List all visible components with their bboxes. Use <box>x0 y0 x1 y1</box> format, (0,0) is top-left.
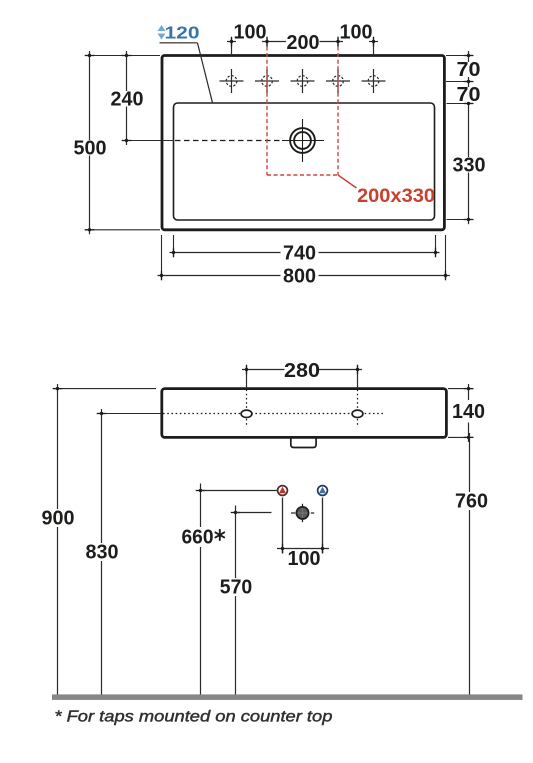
svg-text:760: 760 <box>455 490 488 513</box>
inner basin rect <box>174 103 435 220</box>
svg-text:70: 70 <box>457 83 481 106</box>
dashed centerline of basin <box>175 140 282 142</box>
hot water icon (red) <box>278 486 288 496</box>
svg-text:330: 330 <box>453 154 486 177</box>
tap hole ellipse right <box>352 410 363 417</box>
svg-text:70: 70 <box>457 58 481 81</box>
svg-text:800: 800 <box>283 265 316 288</box>
vertical dotted hole lines <box>246 390 248 427</box>
dim line 800 <box>158 275 450 277</box>
dim 280: verticals above rect <box>242 366 362 389</box>
dim line 740 <box>170 252 440 254</box>
tap hole 1 <box>220 69 244 93</box>
tap hole 3 (center) <box>291 69 315 93</box>
svg-text:140: 140 <box>452 400 485 423</box>
tap hole 4 <box>326 69 350 93</box>
tap hole 5 <box>362 69 386 93</box>
svg-text:900: 900 <box>42 507 75 530</box>
dim line 660 <box>200 484 202 695</box>
svg-text:* For taps mounted on counter: * For taps mounted on counter top <box>54 709 332 726</box>
660 horizontal line <box>201 490 278 492</box>
floor bar <box>52 694 523 700</box>
svg-text:200x330: 200x330 <box>357 185 435 207</box>
dim line 140 <box>468 384 470 442</box>
leader diagonal to inner rect <box>198 43 213 103</box>
570 horizontal line <box>236 512 272 514</box>
svg-text:240: 240 <box>111 88 144 111</box>
drain (top view) concentric circles <box>282 119 324 162</box>
outer rect of basin (top view) <box>162 56 444 230</box>
dotted centerline elevation <box>163 413 383 415</box>
svg-text:100: 100 <box>234 21 267 44</box>
cold water icon (blue) <box>318 486 328 496</box>
top dim line 100/200/100 <box>227 38 378 56</box>
right extension lines (top view) <box>446 56 474 220</box>
supply drop lines <box>283 498 323 554</box>
dim line 240 <box>126 51 128 145</box>
svg-text:740: 740 <box>283 242 316 265</box>
dim line 500 <box>89 51 91 234</box>
red dashed tap zone: right vertical <box>337 47 339 176</box>
svg-text:120: 120 <box>165 23 200 43</box>
leader underline of 120 <box>160 42 198 44</box>
left extension lines (top view) <box>85 56 174 230</box>
waste outlet (filled circle) <box>291 504 314 522</box>
red leader line <box>338 175 357 188</box>
bottom extension lines (top view) <box>162 235 446 280</box>
drain trap below rect <box>291 439 316 448</box>
dim line 100 (supplies) <box>277 548 329 550</box>
svg-text:200: 200 <box>287 31 320 54</box>
svg-text:280: 280 <box>284 359 320 382</box>
svg-text:500: 500 <box>74 137 107 160</box>
dim line 570 <box>235 506 237 695</box>
label 120 arrow icon <box>158 25 166 40</box>
svg-text:100: 100 <box>288 547 321 570</box>
svg-text:660: 660 <box>182 526 214 549</box>
svg-text:830: 830 <box>86 541 119 564</box>
asterisk of 660 label <box>215 530 224 540</box>
dim line 760 <box>469 433 471 695</box>
tap hole 2 <box>255 69 279 93</box>
dim line 70/70/330 <box>468 51 470 224</box>
top-left ext line (elevation) <box>54 388 156 390</box>
red dashed tap zone: left vertical <box>266 47 268 176</box>
svg-text:100: 100 <box>340 21 373 44</box>
solid ext from 830 to rect <box>97 413 161 415</box>
right ext lines (elevation) <box>448 389 474 438</box>
red dashed tap zone: bottom edge <box>267 174 338 176</box>
dim line 830 <box>101 409 103 695</box>
dim line 900 <box>57 384 59 695</box>
svg-text:570: 570 <box>220 576 253 599</box>
elevation rect <box>162 389 447 438</box>
tap hole ellipse left <box>241 410 252 417</box>
